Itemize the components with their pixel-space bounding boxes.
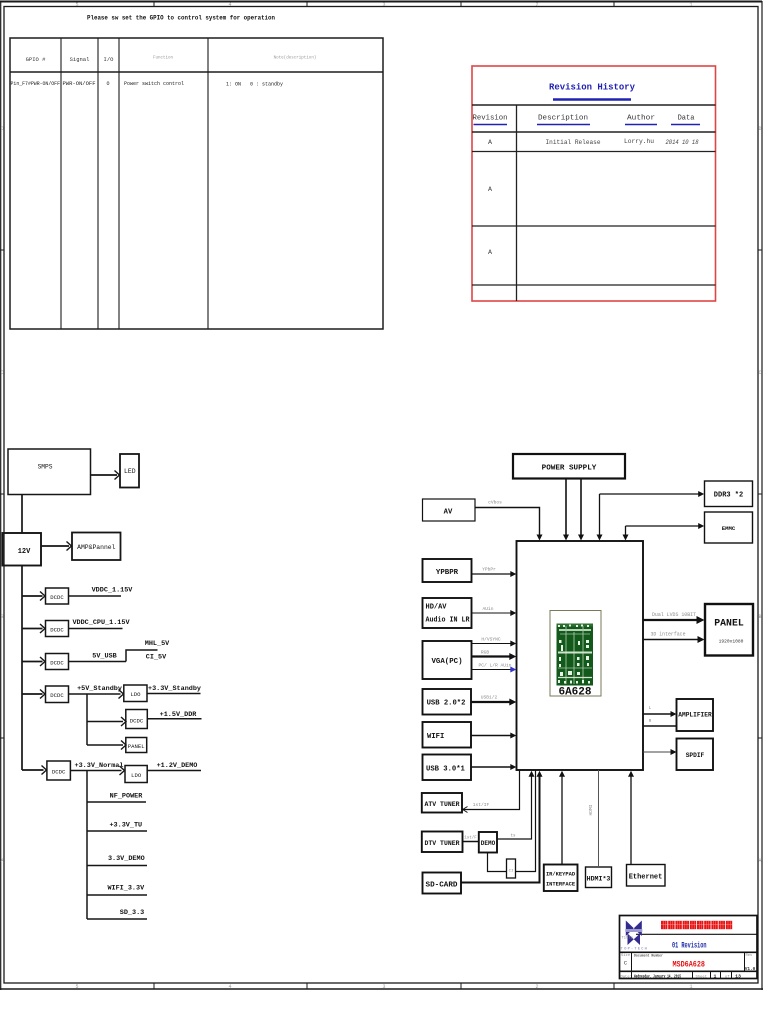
wire CI to chip xyxy=(516,770,536,872)
svg-text:DCDC: DCDC xyxy=(50,659,64,666)
svg-text:DCDC: DCDC xyxy=(52,769,66,776)
wire USB3 to chip xyxy=(471,764,516,770)
wire branch to DCDC6 xyxy=(22,766,47,775)
wire chip to EMMC xyxy=(623,523,705,541)
wire DEMO to chip xyxy=(497,771,535,839)
wire WIFI to chip xyxy=(471,733,516,739)
svg-text:USB 2.0*2: USB 2.0*2 xyxy=(427,700,466,708)
net WIFI_3.3V xyxy=(87,885,147,896)
svg-text:LDO: LDO xyxy=(131,772,142,779)
wire branch to DCDC4 xyxy=(22,690,45,699)
svg-text:Dual LVDS 10BIT: Dual LVDS 10BIT xyxy=(652,612,697,618)
logo TOP-TECH xyxy=(621,921,647,952)
svg-text:C: C xyxy=(1,370,4,376)
svg-text:4: 4 xyxy=(228,2,231,8)
block DCDC2 xyxy=(46,621,69,637)
net +5V_Standby xyxy=(69,685,122,694)
wire VGA hsync to chip xyxy=(472,641,517,647)
svg-text:1st/F: 1st/F xyxy=(464,836,477,841)
svg-text:I/O: I/O xyxy=(104,56,115,63)
wire YPBPR to chip xyxy=(472,571,517,577)
svg-text:HD/AV: HD/AV xyxy=(426,604,448,612)
svg-text:DDR3 *2: DDR3 *2 xyxy=(714,492,743,500)
svg-text:SD_3.3: SD_3.3 xyxy=(120,909,144,917)
block LDO1 xyxy=(124,685,147,702)
block Ethernet xyxy=(627,865,666,887)
wire IR to chip xyxy=(559,771,565,865)
svg-text:VDDC_1.15V: VDDC_1.15V xyxy=(92,587,134,595)
block DCDC1 xyxy=(46,588,69,604)
wire chip to SPDIF xyxy=(643,749,677,755)
svg-text:LED: LED xyxy=(124,468,136,475)
svg-text:+1.2V_DEMO: +1.2V_DEMO xyxy=(157,762,198,770)
svg-text:VGA(PC): VGA(PC) xyxy=(431,658,462,666)
block SMPS xyxy=(8,449,91,495)
svg-text:AMP&Pannel: AMP&Pannel xyxy=(77,544,116,551)
svg-text:2: 2 xyxy=(535,2,538,8)
svg-text:USB1/2: USB1/2 xyxy=(481,695,498,701)
block USB 3.0*1 xyxy=(423,755,472,781)
chip U1 MSD6A628 xyxy=(517,541,644,770)
svg-text:Date:: Date: xyxy=(621,975,632,979)
svg-text:HDMI*3: HDMI*3 xyxy=(587,876,611,883)
wire HDMI to chip xyxy=(598,770,600,867)
chip die photo pcb xyxy=(557,624,594,686)
svg-text:DTV TUNER: DTV TUNER xyxy=(425,840,461,848)
svg-text:A: A xyxy=(488,186,493,194)
block PANEL xyxy=(705,604,753,656)
svg-text:Document Number: Document Number xyxy=(634,954,663,959)
svg-text:Rev: Rev xyxy=(746,954,754,958)
wire VGA rgb bus to chip xyxy=(472,653,517,660)
svg-text:Ethernet: Ethernet xyxy=(629,874,663,882)
svg-text:CI_5V: CI_5V xyxy=(146,654,167,662)
chip die photo frame xyxy=(550,611,601,697)
wire HDAV to chip xyxy=(472,610,517,616)
block DTV TUNER xyxy=(422,832,463,853)
svg-text:NF_POWER: NF_POWER xyxy=(110,793,144,801)
svg-text:RGB: RGB xyxy=(481,650,490,656)
wire standby sub trunk xyxy=(86,694,88,745)
svg-text:Author: Author xyxy=(627,115,655,123)
svg-text:Revision: Revision xyxy=(473,115,508,123)
revision header row xyxy=(473,115,695,123)
net +3.3V_Standby xyxy=(147,685,201,694)
wire chip to PANEL 3d xyxy=(643,636,705,643)
wire chip to AMPLIFIER L xyxy=(643,711,677,717)
svg-text:Power switch control: Power switch control xyxy=(124,81,184,87)
svg-text:Size: Size xyxy=(621,953,631,958)
wire SD-CARD to chip xyxy=(461,771,543,883)
net +1.2V_DEMO xyxy=(147,762,201,771)
svg-text:C: C xyxy=(624,961,627,967)
svg-text:HDMI: HDMI xyxy=(588,804,594,815)
GPIO table xyxy=(10,38,383,329)
block YPBPR xyxy=(423,559,472,582)
block VGA(PC) xyxy=(423,641,472,679)
revision history red box xyxy=(472,66,716,301)
svg-text:DCDC: DCDC xyxy=(130,717,144,724)
svg-text:Pin_F7#PWR-ON/OFF: Pin_F7#PWR-ON/OFF xyxy=(11,81,61,87)
block CI xyxy=(507,859,516,878)
wire branch to DCDC3 xyxy=(22,657,45,666)
svg-text:PANEL: PANEL xyxy=(128,743,145,750)
svg-text:ts: ts xyxy=(510,835,516,839)
svg-text:O: O xyxy=(106,81,109,87)
svg-text:5: 5 xyxy=(75,984,78,990)
svg-text:SD-CARD: SD-CARD xyxy=(426,882,458,890)
block HDMI*3 xyxy=(586,867,612,888)
svg-text:A: A xyxy=(488,249,493,257)
wire ATV to chip xyxy=(463,770,520,813)
svg-text:EMMC: EMMC xyxy=(722,525,736,532)
svg-text:A: A xyxy=(1,858,4,864)
svg-text:POWER SUPPLY: POWER SUPPLY xyxy=(542,465,597,473)
svg-text:2: 2 xyxy=(535,984,538,990)
net VDDC_CPU_1.15V xyxy=(69,619,131,629)
wire power supply 1 xyxy=(563,479,569,541)
svg-text:A: A xyxy=(488,139,493,147)
wire VGA audio to chip xyxy=(472,667,517,673)
svg-text:SPDIF: SPDIF xyxy=(686,752,705,759)
svg-text:Description: Description xyxy=(538,115,588,123)
block LED xyxy=(120,454,139,488)
svg-text:YPBPR: YPBPR xyxy=(436,569,459,577)
svg-text:Wednesday, January 14, 2015: Wednesday, January 14, 2015 xyxy=(634,974,681,980)
svg-text:+1.5V_DDR: +1.5V_DDR xyxy=(160,711,198,719)
svg-text:Note(description): Note(description) xyxy=(274,56,317,61)
svg-text:13: 13 xyxy=(735,974,741,980)
svg-text:B: B xyxy=(1,614,4,620)
svg-text:5V_USB: 5V_USB xyxy=(92,653,116,661)
svg-text:+3.3V_Normal: +3.3V_Normal xyxy=(75,762,124,770)
wire SMPS to LED xyxy=(91,471,120,480)
revision table lines xyxy=(472,105,716,301)
block LDO2 xyxy=(125,766,147,783)
wire SMPS down to 12V xyxy=(21,495,23,534)
wire chip to DDR3 xyxy=(597,491,705,541)
svg-text:A: A xyxy=(758,858,761,864)
svg-text:Lorry.hu: Lorry.hu xyxy=(624,138,654,146)
revision history title underline xyxy=(553,98,631,101)
svg-text:TOP-TECH: TOP-TECH xyxy=(621,948,647,952)
block DEMO xyxy=(479,832,497,853)
svg-text:R: R xyxy=(649,720,652,724)
svg-text:of: of xyxy=(725,974,730,979)
svg-text:Signal: Signal xyxy=(70,56,90,63)
svg-text:01 Revision: 01 Revision xyxy=(672,941,707,951)
wire AV to chip xyxy=(475,508,543,541)
GPIO table header xyxy=(26,56,115,63)
net 3.3V_DEMO xyxy=(87,855,147,866)
block DCDC5 xyxy=(126,710,148,729)
wire DEMO to CI xyxy=(488,853,507,872)
wire branch to DCDC2 xyxy=(22,624,45,633)
net +1.5V_DDR xyxy=(147,711,201,719)
block EMMC xyxy=(705,512,753,543)
svg-text:IR/KEYPAD: IR/KEYPAD xyxy=(546,872,576,878)
wire branch to DCDC1 xyxy=(22,592,45,601)
svg-text:MSD6A628: MSD6A628 xyxy=(673,960,706,970)
block AV xyxy=(423,499,476,521)
wire DTV to DEMO xyxy=(463,841,479,843)
svg-text:2014 10 18: 2014 10 18 xyxy=(666,139,699,147)
wire into LDO2 xyxy=(120,766,125,775)
svg-text:VDDC_CPU_1.15V: VDDC_CPU_1.15V xyxy=(72,619,130,627)
svg-text:1st/IF: 1st/IF xyxy=(473,802,490,808)
svg-text:MHL_5V: MHL_5V xyxy=(145,640,170,648)
svg-text:ATV TUNER: ATV TUNER xyxy=(425,801,461,809)
svg-text:AMPLIFIER: AMPLIFIER xyxy=(678,712,712,719)
block POWER SUPPLY xyxy=(513,454,625,479)
svg-text:1920x1080: 1920x1080 xyxy=(719,639,744,645)
svg-text:AV: AV xyxy=(444,509,453,517)
wire chip to PANEL lvds xyxy=(643,616,705,624)
block SD-CARD xyxy=(423,873,462,894)
svg-text:USB 3.0*1: USB 3.0*1 xyxy=(426,766,466,774)
svg-text:3: 3 xyxy=(382,2,385,8)
block USB 2.0*2 xyxy=(423,689,472,715)
net 5V_USB xyxy=(69,653,127,662)
wire normal sub trunk xyxy=(86,771,88,920)
svg-text:Function: Function xyxy=(153,56,174,61)
svg-text:Revision History: Revision History xyxy=(549,82,635,93)
wire into LDO1 xyxy=(119,690,124,699)
svg-text:PANEL: PANEL xyxy=(714,619,744,630)
wire branch to PANEL ldo xyxy=(87,741,126,750)
svg-text:12V: 12V xyxy=(18,548,31,556)
svg-text:5: 5 xyxy=(75,2,78,8)
block DCDC3 xyxy=(46,654,69,670)
svg-text:INTERFACE: INTERFACE xyxy=(546,882,576,888)
svg-text:+3.3V_TU: +3.3V_TU xyxy=(109,822,142,830)
company name xyxy=(661,921,732,929)
net VDDC_1.15V xyxy=(69,587,134,597)
net SD_3.3 xyxy=(87,909,147,919)
svg-text:WIFI_3.3V: WIFI_3.3V xyxy=(107,885,145,893)
svg-text:DEMO: DEMO xyxy=(481,840,496,847)
svg-text:PWR-ON/OFF: PWR-ON/OFF xyxy=(63,81,96,87)
block DCDC4 xyxy=(46,686,69,703)
svg-text:1: 1 xyxy=(689,984,692,990)
wire power supply 2 xyxy=(578,479,584,541)
svg-text:WIFI: WIFI xyxy=(427,733,444,741)
svg-text:YPbPr: YPbPr xyxy=(482,567,496,573)
wire MHL branch xyxy=(126,650,158,662)
svg-text:Data: Data xyxy=(678,115,695,123)
wire chip to AMPLIFIER R xyxy=(643,725,677,727)
svg-text:PC/ L/R AUin: PC/ L/R AUin xyxy=(478,663,511,669)
GPIO table row xyxy=(11,81,284,88)
svg-text:3D interface: 3D interface xyxy=(651,632,686,638)
svg-text:D: D xyxy=(758,126,761,132)
block AMPLIFIER xyxy=(677,699,714,731)
net NF_POWER xyxy=(87,793,146,803)
svg-text:+3.3V_Standby: +3.3V_Standby xyxy=(148,685,201,693)
svg-text:3: 3 xyxy=(382,984,385,990)
revision header underlines xyxy=(474,124,701,126)
svg-text:DCDC: DCDC xyxy=(50,594,64,601)
net +3.3V_Normal xyxy=(70,762,123,771)
svg-text:Initial Release: Initial Release xyxy=(546,139,601,147)
block WIFI xyxy=(423,722,472,748)
block SPDIF xyxy=(677,739,714,771)
svg-text:GPIO #: GPIO # xyxy=(26,56,47,63)
svg-text:1: ON 0 : standby: 1: ON 0 : standby xyxy=(226,82,283,88)
svg-text:6A628: 6A628 xyxy=(558,687,591,699)
svg-text:3.3V_DEMO: 3.3V_DEMO xyxy=(108,855,145,863)
svg-text:1: 1 xyxy=(689,2,692,8)
svg-text:LDO: LDO xyxy=(130,691,141,698)
wire 12V to AMP&Pannel xyxy=(41,542,72,551)
svg-text:Sheet: Sheet xyxy=(696,974,707,979)
block DDR3 *2 xyxy=(705,481,753,507)
block 12V xyxy=(3,533,42,566)
block ATV TUNER xyxy=(422,793,462,813)
block HD/AV Audio IN LR xyxy=(423,598,472,628)
block PANEL ldo xyxy=(126,738,147,753)
block AMP&Pannel xyxy=(72,533,121,561)
title block frame xyxy=(620,916,758,979)
svg-text:DCDC: DCDC xyxy=(50,626,64,633)
svg-text:C: C xyxy=(758,370,761,376)
wire branch to DCDC5 xyxy=(87,717,126,726)
svg-text:+5V_Standby: +5V_Standby xyxy=(77,685,122,693)
svg-text:AUin: AUin xyxy=(482,606,493,612)
svg-text:DCDC: DCDC xyxy=(50,692,64,699)
svg-text:H/VSYNC: H/VSYNC xyxy=(481,637,501,643)
svg-text:SMPS: SMPS xyxy=(38,464,53,471)
block IR/KEYPAD INTERFACE xyxy=(544,865,578,892)
svg-text:L: L xyxy=(649,707,652,711)
revision row 1 xyxy=(488,138,699,147)
net +3.3V_TU xyxy=(87,822,147,832)
svg-text:V1.0: V1.0 xyxy=(745,967,756,972)
svg-text:4: 4 xyxy=(228,984,231,990)
svg-text:Audio IN LR: Audio IN LR xyxy=(426,617,471,625)
wire Ethernet to chip xyxy=(628,771,634,865)
svg-text:Title: Title xyxy=(622,936,634,941)
svg-text:D: D xyxy=(1,126,4,132)
svg-text:cVbos: cVbos xyxy=(488,500,502,506)
svg-text:Please sw set the GPIO to cont: Please sw set the GPIO to control system… xyxy=(87,15,275,23)
block DCDC6 xyxy=(47,761,71,780)
wire USB2 to chip xyxy=(471,699,516,706)
wire 12V trunk down xyxy=(21,566,23,771)
svg-text:CI: CI xyxy=(509,870,514,874)
svg-text:1: 1 xyxy=(714,974,717,980)
svg-text:B: B xyxy=(758,614,761,620)
